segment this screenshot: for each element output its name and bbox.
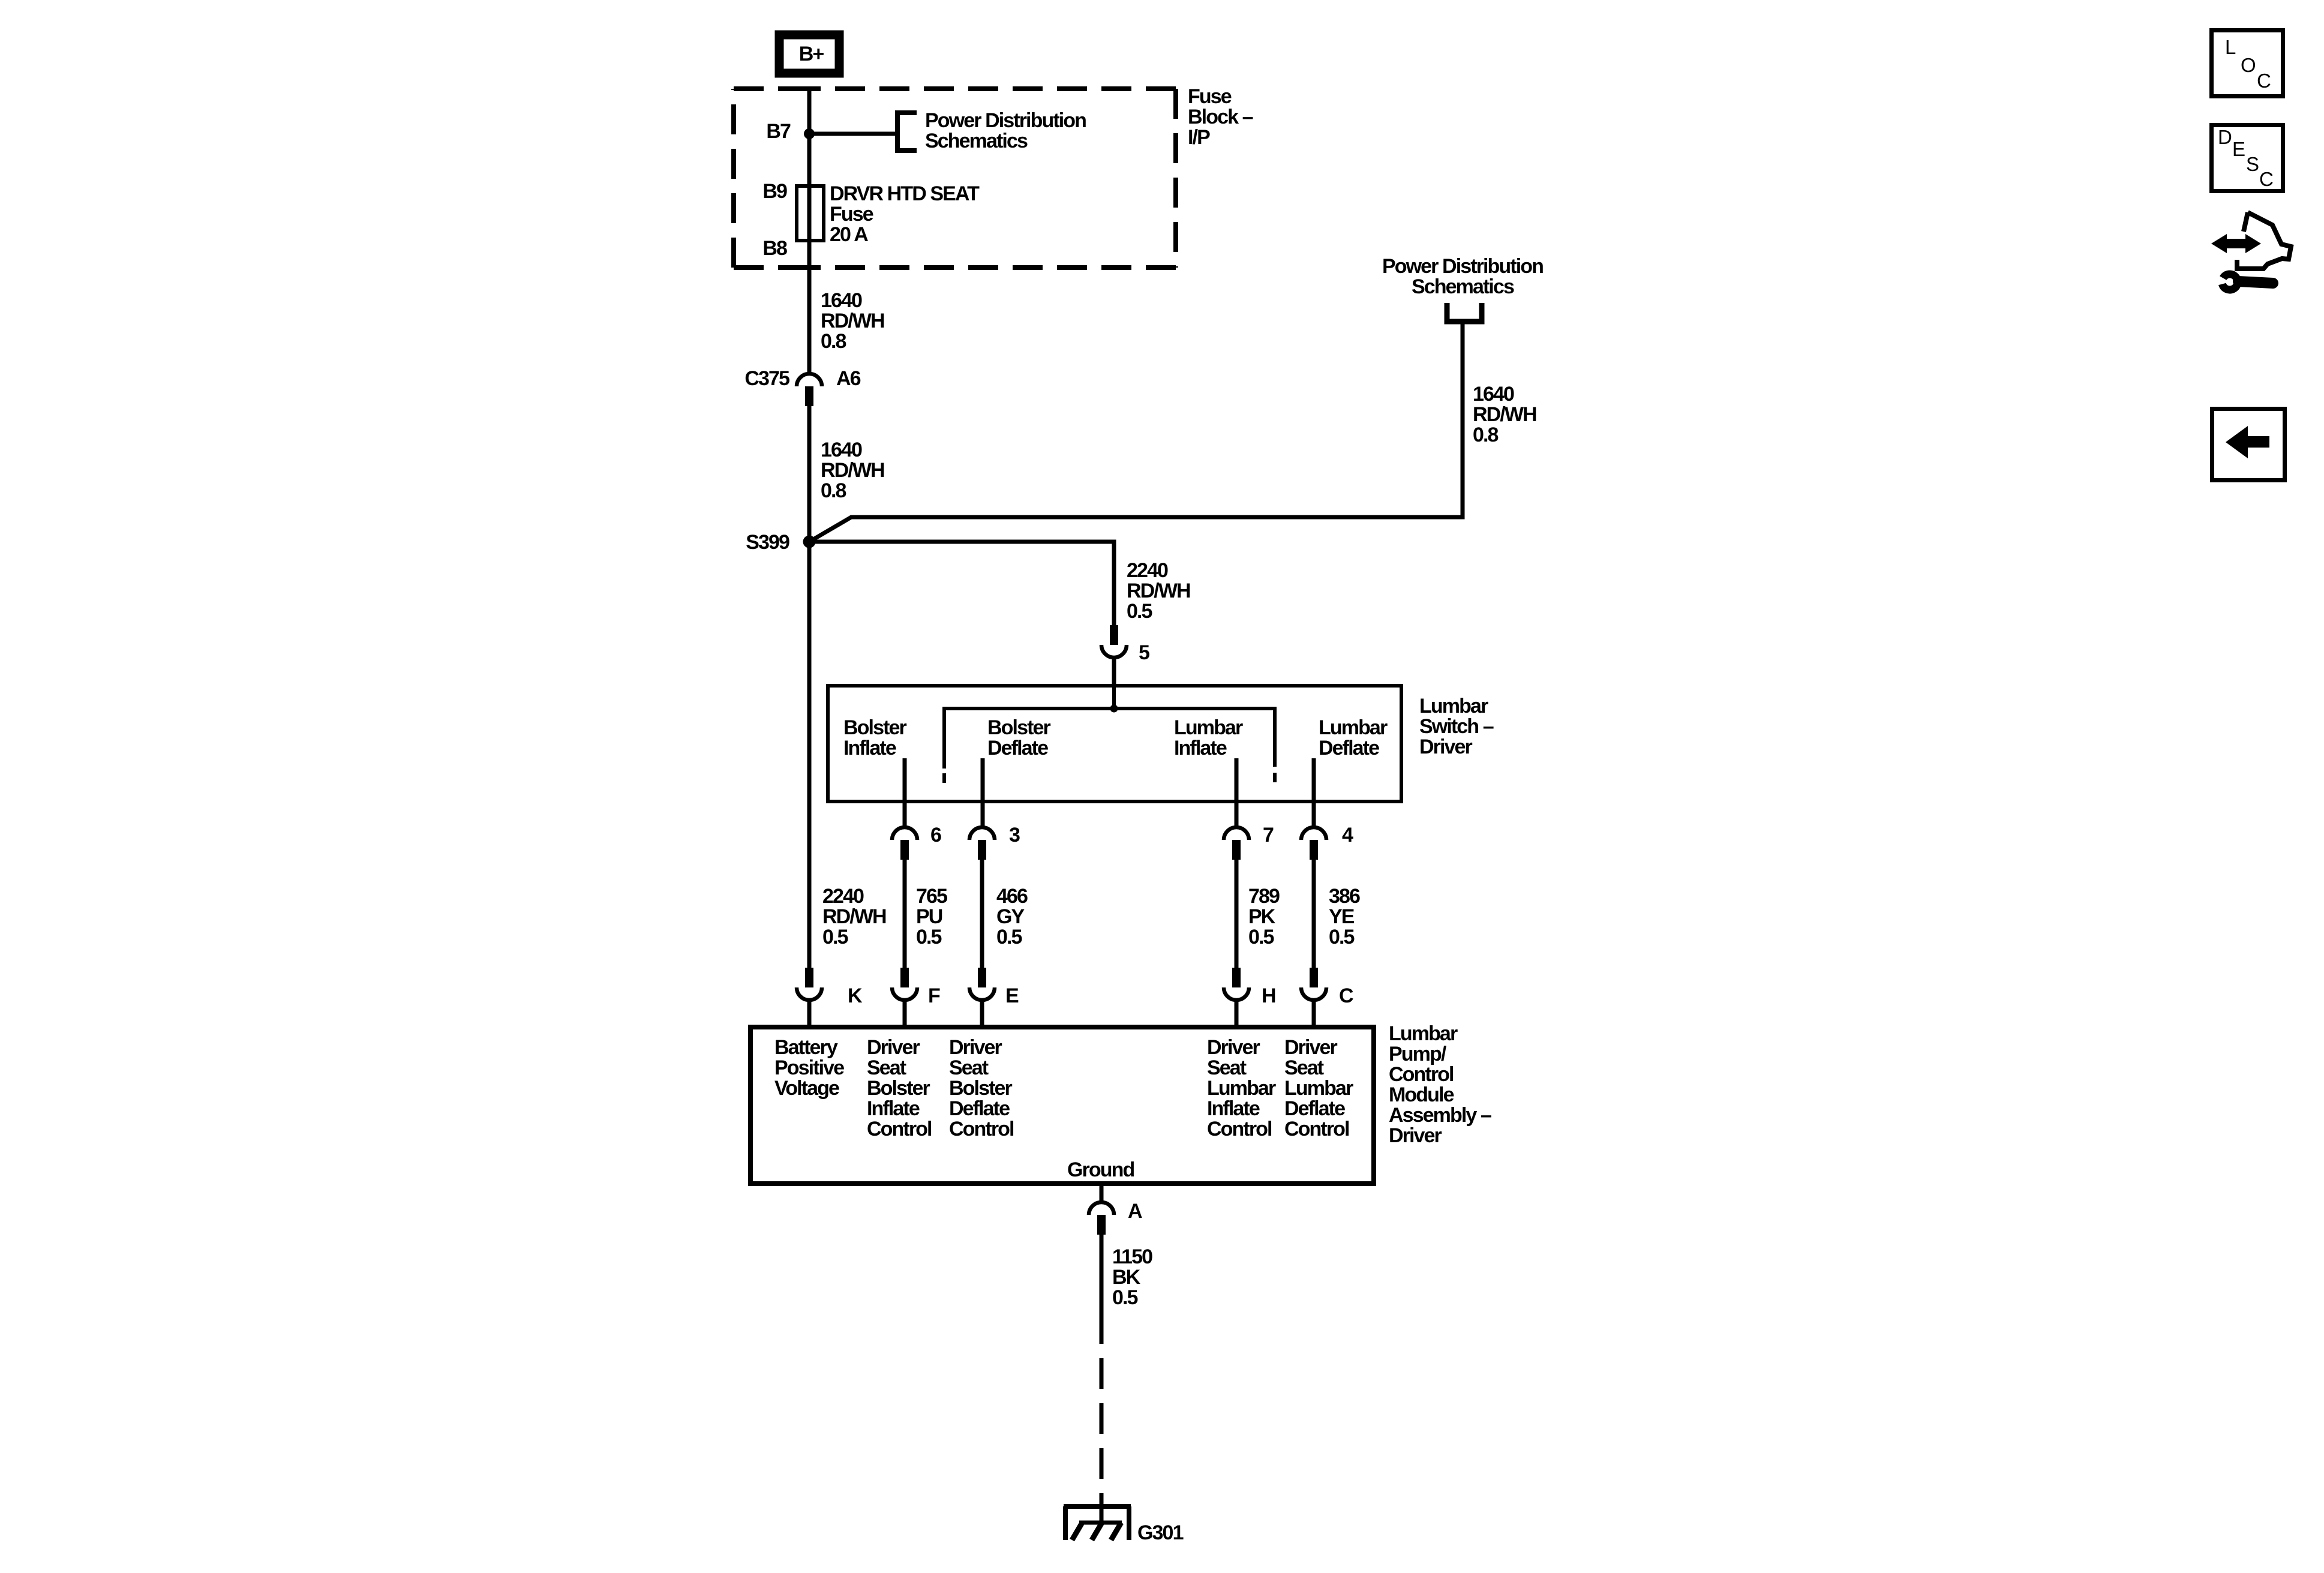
svg-text:386: 386 — [1329, 885, 1360, 908]
svg-text:Driver: Driver — [867, 1036, 920, 1059]
svg-text:1640: 1640 — [1473, 383, 1514, 406]
svg-text:Deflate: Deflate — [949, 1097, 1010, 1120]
connector male terminal pin E — [978, 968, 986, 987]
svg-text:Lumbar: Lumbar — [1284, 1077, 1353, 1100]
label Lumbar Inflate — [1174, 716, 1243, 760]
wire ground out of module — [1100, 1184, 1104, 1200]
wire S399 branch to power distribution (right top) — [809, 324, 1463, 542]
svg-text:Seat: Seat — [1284, 1056, 1324, 1079]
svg-text:Battery: Battery — [774, 1036, 838, 1059]
svg-text:Inflate: Inflate — [1207, 1097, 1260, 1120]
svg-text:0.5: 0.5 — [822, 926, 848, 948]
connector female cup pin E — [969, 987, 995, 1000]
label Bolster Deflate — [987, 716, 1051, 760]
wire ground solid segment — [1100, 1235, 1104, 1344]
svg-text:Control: Control — [1207, 1118, 1272, 1140]
svg-text:K: K — [848, 984, 863, 1007]
svg-text:G301: G301 — [1137, 1521, 1184, 1544]
label Driver Seat Bolster Inflate Control — [867, 1036, 932, 1140]
icon LOC box — [2212, 31, 2283, 97]
switch contact dash left — [942, 773, 946, 783]
svg-text:466: 466 — [996, 885, 1028, 908]
label Power Distribution Schematics (top right) — [1382, 255, 1543, 298]
svg-text:RD/WH: RD/WH — [821, 310, 884, 332]
svg-text:A6: A6 — [836, 367, 861, 390]
wire cup 5 to switch box — [1112, 659, 1116, 686]
svg-text:0.8: 0.8 — [1473, 424, 1499, 446]
wire switch common feed inside box — [1112, 686, 1116, 709]
icon back arrow box — [2212, 409, 2285, 481]
svg-text:RD/WH: RD/WH — [1473, 403, 1536, 426]
connector female cup pin 4 — [1301, 827, 1326, 840]
svg-text:Schematics: Schematics — [1412, 275, 1514, 298]
connector male terminal pin A — [1097, 1215, 1106, 1235]
connector male terminal pin H — [1232, 968, 1241, 987]
icon DESC box — [2212, 125, 2283, 191]
svg-text:Seat: Seat — [949, 1056, 989, 1079]
wire C cup to module box — [1312, 1002, 1316, 1027]
fuse block I/P dashed box — [734, 89, 1176, 268]
svg-text:Control: Control — [1389, 1063, 1454, 1086]
svg-text:Power Distribution: Power Distribution — [1382, 255, 1543, 278]
svg-text:C375: C375 — [744, 367, 789, 390]
svg-text:4: 4 — [1342, 824, 1353, 846]
svg-text:Driver: Driver — [1207, 1036, 1260, 1059]
wire F cup to module box — [903, 1002, 907, 1027]
svg-text:Bolster: Bolster — [987, 716, 1051, 739]
wire E pin3 to module — [980, 860, 984, 968]
svg-text:S: S — [2246, 153, 2259, 175]
connector male terminal at switch pin 5 — [1110, 625, 1118, 645]
svg-text:Deflate: Deflate — [1284, 1097, 1345, 1120]
svg-text:0.5: 0.5 — [1112, 1286, 1138, 1309]
svg-text:Schematics: Schematics — [925, 130, 1028, 152]
node switch bus junction dot — [1110, 705, 1118, 713]
svg-text:1150: 1150 — [1112, 1245, 1152, 1268]
svg-text:L: L — [2225, 36, 2236, 58]
label Battery Positive Voltage — [774, 1036, 844, 1100]
svg-text:765: 765 — [916, 885, 947, 908]
svg-text:H: H — [1262, 984, 1275, 1007]
wire E cup to module box — [980, 1002, 984, 1027]
svg-text:0.8: 0.8 — [821, 330, 846, 353]
lumbar switch driver box — [828, 686, 1401, 801]
wire label 789 PK 0.5 — [1248, 885, 1280, 948]
connector male terminal pin 4 — [1310, 840, 1318, 860]
connector male terminal pin C — [1310, 968, 1318, 987]
svg-text:Lumbar: Lumbar — [1319, 716, 1388, 739]
svg-text:C: C — [2259, 168, 2274, 190]
switch common bus — [944, 709, 1275, 769]
svg-text:1640: 1640 — [821, 439, 862, 461]
svg-text:789: 789 — [1248, 885, 1280, 908]
svg-text:2240: 2240 — [822, 885, 864, 908]
svg-text:Block –: Block – — [1188, 106, 1253, 128]
svg-text:F: F — [928, 984, 940, 1007]
svg-text:6: 6 — [930, 824, 941, 846]
label Power Distribution Schematics (left) — [925, 109, 1086, 152]
bracket to Power Distribution Schematics (left) — [897, 113, 917, 151]
wire B+ feed vertical into fuse — [807, 89, 812, 373]
svg-text:B8: B8 — [762, 237, 787, 260]
connector male terminal pin K — [805, 968, 813, 987]
wire S399 branch to lumbar switch pin 5 — [809, 542, 1114, 625]
label DRVR HTD SEAT Fuse 20 A — [830, 182, 980, 246]
svg-text:Switch –: Switch – — [1419, 715, 1494, 738]
svg-text:Module: Module — [1389, 1083, 1454, 1106]
svg-text:S399: S399 — [746, 531, 789, 554]
svg-text:Seat: Seat — [867, 1056, 906, 1079]
svg-text:B7: B7 — [766, 120, 791, 143]
svg-text:Driver: Driver — [1284, 1036, 1338, 1059]
connector female cup pin 7 — [1224, 827, 1249, 840]
wire label 1640 RD/WH 0.8 (above C375) — [821, 289, 884, 353]
svg-text:Lumbar: Lumbar — [1389, 1022, 1458, 1045]
svg-text:B9: B9 — [762, 180, 787, 203]
svg-text:O: O — [2241, 54, 2256, 76]
svg-text:YE: YE — [1329, 905, 1355, 928]
wire label 386 YE 0.5 — [1329, 885, 1360, 948]
wire C pin4 to module — [1312, 860, 1316, 968]
wire label 765 PU 0.5 — [916, 885, 947, 948]
svg-text:Assembly –: Assembly – — [1389, 1104, 1491, 1127]
connector female cup pin 6 — [892, 827, 917, 840]
wire label 466 GY 0.5 — [996, 885, 1028, 948]
connector female cup pin 3 — [969, 827, 995, 840]
svg-text:0.5: 0.5 — [996, 926, 1022, 948]
svg-text:Deflate: Deflate — [1319, 737, 1379, 760]
wire bolster inflate stub to pin 6 — [903, 758, 907, 826]
label Driver Seat Bolster Deflate Control — [949, 1036, 1014, 1140]
label Fuse Block - I/P — [1188, 85, 1253, 149]
fuse DRVR HTD SEAT 20 A — [797, 186, 824, 241]
svg-text:Driver: Driver — [1419, 736, 1473, 758]
svg-text:Inflate: Inflate — [1174, 737, 1227, 760]
wire K cup to module box — [807, 1002, 812, 1027]
svg-text:0.8: 0.8 — [821, 479, 846, 502]
connector female cup pin A — [1089, 1202, 1114, 1215]
svg-text:PK: PK — [1248, 905, 1276, 928]
connector female cup pin F — [892, 987, 917, 1000]
connector C375 female half (pin A6) — [797, 374, 822, 386]
wire H pin7 to module — [1235, 860, 1239, 968]
wire F pin6 to module — [903, 860, 907, 968]
bracket to Power Distribution Schematics (top right) — [1447, 303, 1482, 322]
wire ground dashed segment — [1100, 1358, 1104, 1506]
wire label 1640 RD/WH 0.8 (below C375) — [821, 439, 884, 502]
svg-text:RD/WH: RD/WH — [821, 459, 884, 482]
connector male terminal pin 7 — [1232, 840, 1241, 860]
wire label 1150 BK 0.5 — [1112, 1245, 1152, 1309]
svg-text:RD/WH: RD/WH — [822, 905, 886, 928]
svg-text:0.5: 0.5 — [1248, 926, 1274, 948]
wire label 2240 RD/WH 0.5 (switch feed) — [1127, 559, 1190, 623]
svg-text:I/P: I/P — [1188, 126, 1210, 149]
svg-text:0.5: 0.5 — [1329, 926, 1355, 948]
svg-text:Voltage: Voltage — [774, 1077, 839, 1100]
B+ battery terminal box — [779, 35, 839, 73]
node B7 junction dot — [804, 128, 815, 139]
svg-text:Driver: Driver — [1389, 1124, 1442, 1147]
svg-text:Fuse: Fuse — [830, 203, 873, 226]
svg-text:5: 5 — [1139, 641, 1149, 664]
icon remove/install (arrow, outline, wrench) — [2211, 212, 2291, 290]
svg-text:7: 7 — [1263, 824, 1274, 846]
wire B7 tap to power distribution — [809, 132, 895, 136]
wire label 1640 RD/WH 0.8 (right branch) — [1473, 383, 1536, 446]
wire bolster deflate stub to pin 3 — [981, 758, 985, 826]
wire label 2240 RD/WH 0.5 (K) — [822, 885, 886, 948]
svg-text:Fuse: Fuse — [1188, 85, 1232, 108]
lumbar pump control module box — [750, 1027, 1374, 1184]
wire lumbar deflate stub to pin 4 — [1312, 758, 1316, 826]
wire lumbar inflate stub to pin 7 — [1235, 758, 1239, 826]
connector female cup pin K — [797, 987, 822, 1000]
svg-text:B+: B+ — [799, 43, 824, 65]
label Lumbar Switch - Driver — [1419, 695, 1494, 758]
svg-text:3: 3 — [1009, 824, 1020, 846]
svg-text:Positive: Positive — [774, 1056, 844, 1079]
switch contact dash right — [1273, 773, 1277, 782]
connector male terminal pin 3 — [978, 840, 986, 860]
svg-text:RD/WH: RD/WH — [1127, 580, 1190, 602]
svg-text:2240: 2240 — [1127, 559, 1168, 582]
label Bolster Inflate — [843, 716, 907, 760]
svg-text:E: E — [2232, 138, 2245, 160]
svg-text:Seat: Seat — [1207, 1056, 1247, 1079]
svg-text:C: C — [1339, 984, 1353, 1007]
svg-text:A: A — [1128, 1200, 1142, 1223]
svg-text:Pump/: Pump/ — [1389, 1043, 1447, 1065]
svg-text:0.5: 0.5 — [916, 926, 942, 948]
svg-text:20 A: 20 A — [830, 223, 868, 246]
svg-text:PU: PU — [916, 905, 942, 928]
svg-text:Bolster: Bolster — [949, 1077, 1013, 1100]
svg-text:Inflate: Inflate — [867, 1097, 920, 1120]
svg-text:DRVR HTD SEAT: DRVR HTD SEAT — [830, 182, 980, 205]
wire H cup to module box — [1235, 1002, 1239, 1027]
connector C375 male terminal — [805, 386, 813, 406]
svg-text:Bolster: Bolster — [843, 716, 907, 739]
svg-text:Lumbar: Lumbar — [1174, 716, 1243, 739]
svg-text:Ground: Ground — [1067, 1158, 1134, 1181]
label Driver Seat Lumbar Inflate Control — [1207, 1036, 1276, 1140]
svg-text:Control: Control — [949, 1118, 1014, 1140]
svg-text:Power Distribution: Power Distribution — [925, 109, 1086, 132]
connector female cup pin H — [1224, 987, 1249, 1000]
label Driver Seat Lumbar Deflate Control — [1284, 1036, 1353, 1140]
label Lumbar Deflate — [1319, 716, 1388, 760]
svg-text:1640: 1640 — [821, 289, 862, 312]
connector female cup pin 5 — [1101, 645, 1127, 658]
svg-text:Inflate: Inflate — [843, 737, 896, 760]
svg-text:Control: Control — [1284, 1118, 1349, 1140]
svg-text:0.5: 0.5 — [1127, 600, 1152, 623]
svg-text:E: E — [1005, 984, 1019, 1007]
svg-text:Control: Control — [867, 1118, 932, 1140]
svg-text:Lumbar: Lumbar — [1419, 695, 1488, 718]
svg-text:Bolster: Bolster — [867, 1077, 930, 1100]
label Lumbar Pump/Control Module Assembly - Driver — [1389, 1022, 1491, 1147]
wire K feed S399 to module — [807, 542, 812, 968]
svg-text:GY: GY — [996, 905, 1025, 928]
svg-text:BK: BK — [1112, 1266, 1141, 1289]
connector male terminal pin 6 — [900, 840, 909, 860]
svg-text:C: C — [2257, 70, 2271, 92]
svg-text:Deflate: Deflate — [987, 737, 1048, 760]
wire C375 to S399 — [807, 406, 812, 542]
svg-text:Driver: Driver — [949, 1036, 1002, 1059]
svg-text:D: D — [2218, 126, 2232, 148]
svg-text:Lumbar: Lumbar — [1207, 1077, 1276, 1100]
ground G301 symbol — [1064, 1506, 1131, 1540]
connector female cup pin C — [1301, 987, 1326, 1000]
connector male terminal pin F — [900, 968, 909, 987]
splice S399 dot — [803, 536, 816, 548]
